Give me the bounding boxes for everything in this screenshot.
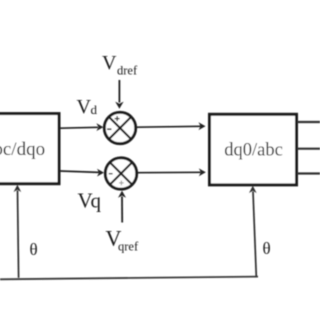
summing junction S1 (Vd) <box>104 112 135 143</box>
svg-text:d: d <box>91 102 98 117</box>
sign plus S1 <box>115 116 120 121</box>
summing junction S2 (Vq) <box>105 158 136 189</box>
wire S2 to dq0/abc <box>138 168 206 176</box>
label Vqref <box>106 226 139 254</box>
svg-text:V: V <box>102 52 117 74</box>
svg-text:V: V <box>77 96 92 118</box>
sign plus S2 (faint) <box>119 181 124 186</box>
wire output c <box>297 172 320 174</box>
wire Vdref arrow into S1 top <box>115 80 123 109</box>
wire output a <box>297 121 320 123</box>
label Vq <box>78 189 102 213</box>
wire feedback theta right (up into dq0/abc bottom) <box>249 186 257 277</box>
sign minus S2 <box>109 173 113 175</box>
block dq0/abc (right) <box>210 114 297 185</box>
svg-text:q: q <box>91 189 102 213</box>
label Vdref <box>102 52 138 78</box>
wire Vd: abc/dqo to S1 <box>60 123 103 131</box>
svg-text:θ: θ <box>263 239 271 258</box>
svg-text:qref: qref <box>118 240 139 254</box>
sign minus S1 <box>107 128 112 130</box>
wire S1 to dq0/abc <box>136 122 206 130</box>
svg-text:dq0/abc: dq0/abc <box>224 140 283 160</box>
block abc/dqo (left, cut off at image edge) <box>0 114 59 184</box>
svg-text:dref: dref <box>117 64 138 78</box>
wire bottom feedback horizontal <box>0 277 258 280</box>
wire output b <box>297 148 320 150</box>
svg-text:θ: θ <box>30 240 38 259</box>
svg-text:abc/dqo: abc/dqo <box>0 139 45 160</box>
wire Vq: abc/dqo to S2 <box>60 169 104 177</box>
wire Vqref arrow into S2 bottom <box>118 191 126 223</box>
wire feedback theta left (up into abc/dqo bottom) <box>14 185 22 278</box>
label Vd <box>77 96 98 118</box>
